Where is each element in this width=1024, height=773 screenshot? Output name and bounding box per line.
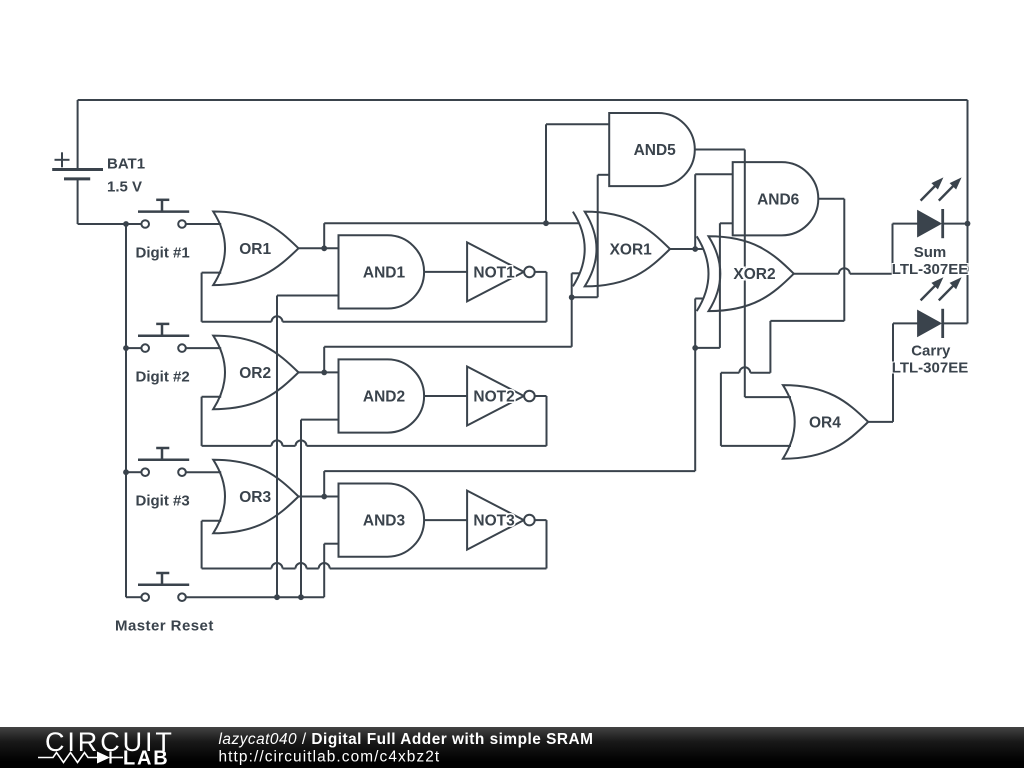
svg-text:Digit #1: Digit #1 bbox=[136, 244, 190, 261]
svg-text:AND6: AND6 bbox=[757, 191, 800, 208]
svg-text:LTL-307EE: LTL-307EE bbox=[892, 360, 968, 377]
svg-text:OR3: OR3 bbox=[239, 489, 271, 506]
svg-text:AND5: AND5 bbox=[634, 142, 677, 159]
svg-text:AND1: AND1 bbox=[363, 264, 406, 281]
svg-text:BAT1: BAT1 bbox=[107, 156, 145, 173]
svg-text:Master Reset: Master Reset bbox=[115, 617, 214, 634]
svg-text:Digit #3: Digit #3 bbox=[136, 493, 190, 510]
svg-text:LAB: LAB bbox=[123, 748, 170, 769]
svg-text:Sum: Sum bbox=[914, 244, 947, 261]
svg-text:OR1: OR1 bbox=[239, 241, 271, 258]
svg-text:Digit #2: Digit #2 bbox=[136, 368, 190, 385]
svg-text:1.5 V: 1.5 V bbox=[107, 179, 142, 196]
svg-text:OR4: OR4 bbox=[809, 414, 841, 431]
svg-text:AND2: AND2 bbox=[363, 389, 405, 406]
svg-text:XOR2: XOR2 bbox=[733, 266, 775, 283]
svg-text:NOT3: NOT3 bbox=[473, 513, 515, 530]
svg-text:http://circuitlab.com/c4xbz2t: http://circuitlab.com/c4xbz2t bbox=[219, 749, 441, 766]
svg-text:LTL-307EE: LTL-307EE bbox=[892, 261, 968, 278]
svg-text:NOT1: NOT1 bbox=[473, 264, 515, 281]
svg-text:OR2: OR2 bbox=[239, 365, 271, 382]
svg-text:NOT2: NOT2 bbox=[473, 389, 514, 406]
svg-text:XOR1: XOR1 bbox=[610, 242, 653, 259]
svg-text:Carry: Carry bbox=[911, 342, 951, 359]
svg-text:AND3: AND3 bbox=[363, 513, 406, 530]
svg-text:lazycat040 / Digital Full Adde: lazycat040 / Digital Full Adder with sim… bbox=[219, 731, 594, 748]
